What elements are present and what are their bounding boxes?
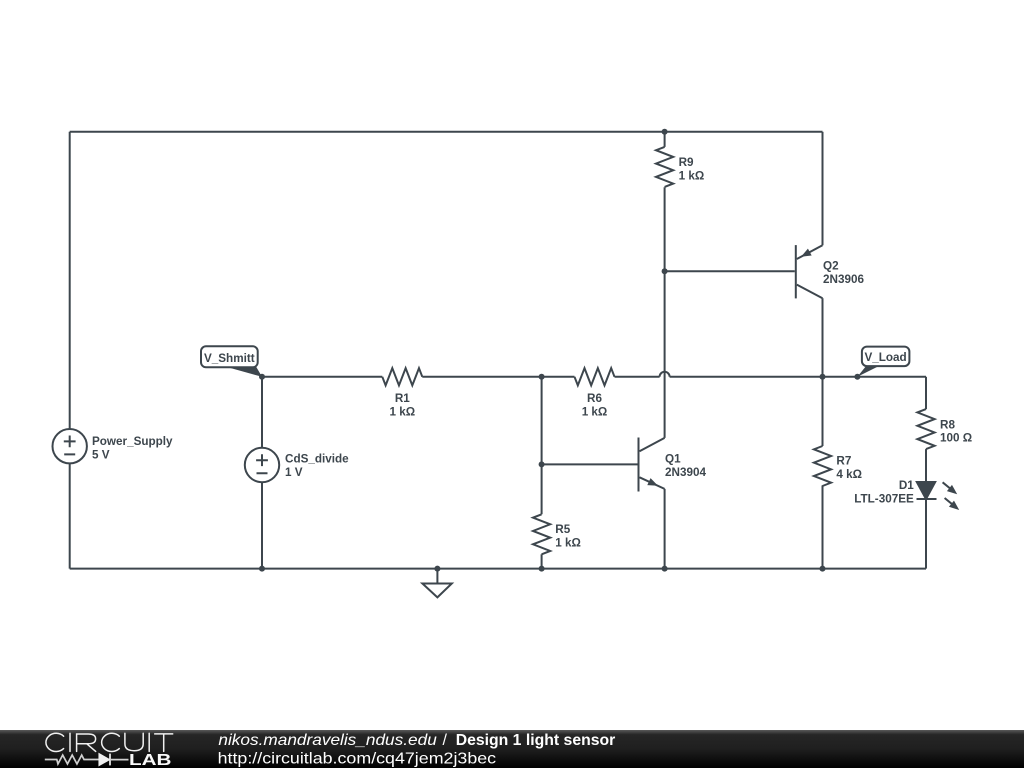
svg-text:1 kΩ: 1 kΩ xyxy=(555,537,581,550)
flag V_Load xyxy=(857,347,909,377)
wire left rail upper xyxy=(69,132,71,429)
wire R8 branch upper xyxy=(925,377,927,409)
node bottom R5 xyxy=(539,566,545,572)
wire R5 branch lower xyxy=(541,554,543,568)
svg-text:CdS_divide: CdS_divide xyxy=(285,453,349,466)
wire R7 branch lower xyxy=(822,485,824,568)
transistor Q2 xyxy=(796,245,823,298)
wire left rail lower xyxy=(69,463,71,568)
svg-text:100 Ω: 100 Ω xyxy=(940,432,972,445)
logo CIRCUIT word xyxy=(46,733,173,751)
svg-text:Q2: Q2 xyxy=(823,259,839,272)
svg-text:V_Load: V_Load xyxy=(864,351,906,364)
wire R5 branch upper xyxy=(541,377,543,515)
resistor R1 xyxy=(382,368,422,385)
svg-text:/: / xyxy=(443,732,448,749)
wire mid rail seg2 xyxy=(422,376,574,378)
node mid R7 xyxy=(820,374,826,380)
svg-text:Q1: Q1 xyxy=(665,453,681,466)
svg-text:V_Shmitt: V_Shmitt xyxy=(204,352,255,365)
wire R9 top stub xyxy=(664,132,666,147)
svg-text:LAB: LAB xyxy=(129,752,172,768)
svg-text:5 V: 5 V xyxy=(92,449,110,462)
svg-text:http://circuitlab.com/cq47jem2: http://circuitlab.com/cq47jem2j3bec xyxy=(218,751,497,768)
svg-text:R1: R1 xyxy=(395,392,410,405)
node bottom Q1 emitter xyxy=(662,566,668,572)
flag V_Shmitt xyxy=(201,346,262,377)
node top R9 xyxy=(662,129,668,135)
wire Q1 emitter vertical xyxy=(664,489,666,569)
node junction dots xyxy=(259,129,860,572)
svg-text:1 V: 1 V xyxy=(285,466,303,479)
footer bar xyxy=(0,730,1024,768)
voltage source CdS_divide xyxy=(245,448,279,482)
wire Q2 collector vertical xyxy=(822,298,824,377)
resistor R8 xyxy=(917,409,934,449)
node bottom CdS xyxy=(259,566,265,572)
svg-text:R5: R5 xyxy=(555,523,570,536)
svg-text:Power_Supply: Power_Supply xyxy=(92,435,173,448)
node bottom R7 xyxy=(820,566,826,572)
svg-text:LTL-307EE: LTL-307EE xyxy=(854,493,914,506)
svg-text:1 kΩ: 1 kΩ xyxy=(679,170,705,183)
wire bottom rail xyxy=(70,568,926,570)
resistor R6 xyxy=(575,368,615,385)
wire mid rail seg4 xyxy=(670,376,926,378)
wire Q2 emitter vertical xyxy=(822,132,824,246)
resistor R7 xyxy=(814,446,831,486)
wire Q1 base xyxy=(542,463,639,465)
LED D1 xyxy=(917,482,962,513)
wire R8 to LED xyxy=(925,449,927,482)
wire mid rail seg3 xyxy=(615,376,660,378)
wire hop over vertical xyxy=(660,372,670,377)
wire Q2 base xyxy=(665,270,795,272)
node V_Load attach xyxy=(854,374,860,380)
resistor R9 xyxy=(656,147,673,187)
wire mid rail seg1 xyxy=(262,376,382,378)
svg-text:R7: R7 xyxy=(836,455,851,468)
svg-text:R9: R9 xyxy=(679,156,694,169)
svg-text:Design 1 light sensor: Design 1 light sensor xyxy=(456,732,616,749)
wire R9 to Q1 collector vertical xyxy=(664,187,666,438)
node Q1 base xyxy=(539,461,545,467)
svg-text:R8: R8 xyxy=(940,418,955,431)
logo resistor-diode xyxy=(45,754,129,766)
svg-text:2N3906: 2N3906 xyxy=(823,273,864,286)
ground xyxy=(422,569,451,598)
node mid R5 xyxy=(539,374,545,380)
svg-text:1 kΩ: 1 kΩ xyxy=(389,405,415,418)
wire top rail xyxy=(70,131,823,133)
node Q2 base xyxy=(662,268,668,274)
svg-text:4 kΩ: 4 kΩ xyxy=(836,468,862,481)
wire CdS branch upper xyxy=(261,377,263,448)
node V_Shmitt xyxy=(259,374,265,380)
svg-text:R6: R6 xyxy=(587,392,602,405)
voltage source Power_Supply xyxy=(52,429,86,463)
node bottom ground xyxy=(434,566,440,572)
svg-text:2N3904: 2N3904 xyxy=(665,466,706,479)
transistor Q1 xyxy=(639,438,665,492)
resistor R5 xyxy=(533,514,550,554)
wire R7 branch upper xyxy=(822,377,824,446)
svg-text:D1: D1 xyxy=(899,479,914,492)
svg-text:nikos.mandravelis_ndus.edu: nikos.mandravelis_ndus.edu xyxy=(218,732,437,749)
svg-text:1 kΩ: 1 kΩ xyxy=(582,405,608,418)
wire LED to bottom xyxy=(925,499,927,569)
wire CdS branch lower xyxy=(261,482,263,568)
